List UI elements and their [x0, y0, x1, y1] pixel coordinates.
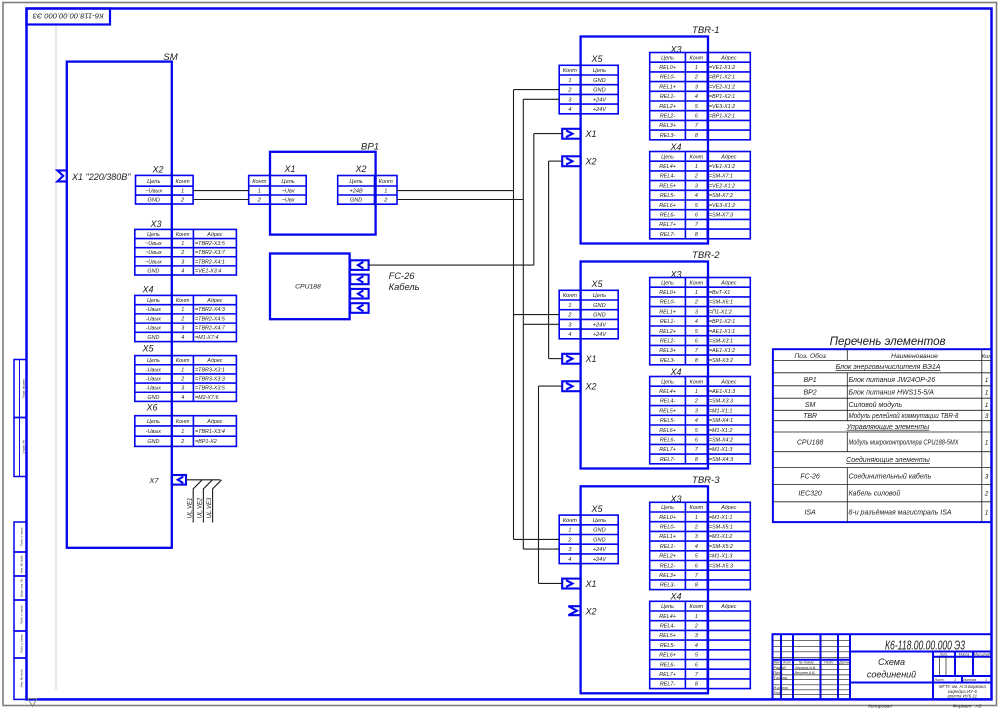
- svg-text:6: 6: [695, 662, 698, 668]
- svg-text:REL2-: REL2-: [660, 339, 675, 345]
- svg-text:8: 8: [695, 358, 698, 364]
- svg-text:4: 4: [181, 395, 184, 401]
- svg-text:X5: X5: [590, 279, 603, 289]
- svg-text:Конт: Конт: [175, 179, 189, 185]
- svg-text:Адрес: Адрес: [720, 55, 737, 61]
- tap +24V to TBR-3 X5:3: [523, 548, 559, 550]
- svg-text:4: 4: [695, 193, 698, 199]
- svg-text:6: 6: [695, 563, 698, 569]
- svg-text:Цепь: Цепь: [147, 419, 160, 425]
- svg-text:Цепь: Цепь: [147, 358, 160, 364]
- svg-text:3: 3: [695, 408, 698, 414]
- svg-text:1: 1: [985, 439, 989, 446]
- svg-text:ISA: ISA: [804, 509, 816, 516]
- svg-text:REL2-: REL2-: [660, 114, 675, 120]
- svg-text:~Uвых: ~Uвых: [145, 189, 162, 195]
- svg-text:IEC320: IEC320: [798, 491, 821, 498]
- svg-text:1: 1: [258, 189, 261, 195]
- svg-text:1: 1: [568, 78, 571, 84]
- TBR-3 connector X1 port: [562, 579, 580, 589]
- svg-text:1: 1: [181, 307, 184, 313]
- svg-text:Инв. № дубл.: Инв. № дубл.: [20, 555, 24, 574]
- wire riser to TBR-1 X1: [534, 133, 562, 135]
- svg-text:Подп. и дата: Подп. и дата: [20, 634, 24, 653]
- svg-text:=SM-X4:1: =SM-X4:1: [709, 418, 733, 424]
- svg-text:4: 4: [695, 94, 698, 100]
- svg-text:=M1-X1:2: =M1-X1:2: [709, 534, 733, 540]
- TBR-3 connector X4 table: [650, 601, 751, 688]
- svg-text:-Uвых: -Uвых: [146, 307, 161, 313]
- svg-text:=SM-X7:1: =SM-X7:1: [709, 174, 733, 180]
- wire SM X2:1 to BP1 X1 upper: [193, 190, 249, 192]
- svg-text:~Uвх: ~Uвх: [282, 198, 295, 204]
- svg-text:6: 6: [695, 438, 698, 444]
- svg-text:-Uвых: -Uвых: [146, 429, 161, 435]
- svg-text:3: 3: [181, 386, 184, 392]
- svg-text:Вешнев А.В.: Вешнев А.В.: [795, 671, 816, 675]
- svg-text:3: 3: [985, 473, 989, 480]
- svg-text:+24V: +24V: [593, 107, 607, 113]
- svg-text:CPU188: CPU188: [295, 284, 321, 291]
- svg-text:UL.VE1: UL.VE1: [188, 498, 194, 519]
- svg-text:1: 1: [985, 509, 989, 516]
- TBR-2 connector X3 table: [650, 278, 751, 365]
- svg-text:2: 2: [694, 624, 698, 630]
- svg-text:+24V: +24V: [593, 332, 607, 338]
- svg-text:Справ. №: Справ. №: [22, 439, 26, 453]
- svg-text:+24V: +24V: [593, 557, 607, 563]
- svg-text:А3: А3: [975, 703, 982, 709]
- svg-text:=TBR2-X3:5: =TBR2-X3:5: [195, 241, 226, 247]
- module TBR-3 body: [581, 486, 708, 693]
- BP1 connector X1 table: [249, 176, 307, 205]
- svg-text:Кабель: Кабель: [389, 282, 420, 292]
- top-left stamp box K6-118.00.00.000 E3: [27, 9, 111, 25]
- svg-text:~Uвых: ~Uвых: [145, 241, 162, 247]
- svg-text:REL4-: REL4-: [660, 174, 675, 180]
- svg-text:Цепь: Цепь: [661, 505, 674, 511]
- svg-text:X5: X5: [590, 504, 603, 514]
- svg-text:4: 4: [181, 268, 184, 274]
- wire SM X2:2 to BP1 X1 lower: [193, 199, 249, 201]
- svg-text:2: 2: [694, 525, 698, 531]
- svg-text:1: 1: [181, 241, 184, 247]
- svg-text:-Uвых: -Uвых: [146, 367, 161, 373]
- svg-text:=VE3-X1:2: =VE3-X1:2: [709, 203, 735, 209]
- svg-text:GND: GND: [350, 198, 362, 204]
- svg-text:Конт: Конт: [379, 179, 393, 185]
- svg-text:2: 2: [694, 300, 698, 306]
- wire BP1 X2:1 +24V feed: [397, 190, 514, 192]
- svg-text:1: 1: [695, 290, 698, 296]
- svg-text:Цепь: Цепь: [661, 604, 674, 610]
- svg-text:=TBR2-X3:7: =TBR2-X3:7: [195, 250, 226, 256]
- TBR-1 connector X1 port: [562, 129, 580, 139]
- left margin box Sprav. No: [14, 418, 27, 477]
- svg-text:=M1-X1:1: =M1-X1:1: [709, 408, 733, 414]
- svg-text:Изм: Изм: [774, 661, 781, 665]
- svg-text:Блок питания HWS15-5/A: Блок питания HWS15-5/A: [849, 390, 935, 397]
- svg-text:Поз. Обоз: Поз. Обоз: [794, 352, 826, 360]
- svg-text:4: 4: [695, 544, 698, 550]
- svg-text:6: 6: [695, 213, 698, 219]
- branch UL.VE3: [213, 480, 222, 523]
- svg-text:4: 4: [695, 643, 698, 649]
- svg-text:2: 2: [694, 399, 698, 405]
- svg-text:группа ИУ6-11: группа ИУ6-11: [948, 694, 978, 699]
- left margin box Inv. No dubl.: [14, 552, 27, 576]
- svg-text:2: 2: [180, 316, 184, 322]
- module SM body: [67, 62, 172, 548]
- svg-text:REL6-: REL6-: [660, 438, 675, 444]
- svg-text:REL6+: REL6+: [659, 653, 676, 659]
- svg-text:=M1-X1:1: =M1-X1:1: [709, 515, 733, 521]
- svg-text:Конт: Конт: [563, 518, 577, 524]
- svg-text:Конт: Конт: [176, 298, 190, 304]
- svg-text:REL6-: REL6-: [660, 662, 675, 668]
- TBR-1 connector X5 table: [559, 65, 618, 114]
- svg-text:Копировал: Копировал: [868, 703, 892, 709]
- svg-text:3: 3: [695, 309, 698, 315]
- svg-text:=AE1-X1:2: =AE1-X1:2: [709, 348, 735, 354]
- svg-text:Адрес: Адрес: [720, 154, 737, 160]
- svg-text:-Uвых: -Uвых: [146, 316, 161, 322]
- svg-text:Инв. № подл.: Инв. № подл.: [20, 669, 24, 688]
- tap +24V to TBR-2 X5:3: [523, 323, 559, 325]
- CPU188 port 2: [350, 275, 368, 285]
- wire to TBR-2 X1: [549, 358, 562, 360]
- svg-text:REL5-: REL5-: [660, 193, 675, 199]
- svg-text:REL2+: REL2+: [659, 554, 676, 560]
- svg-text:REL3+: REL3+: [659, 123, 676, 129]
- svg-text:К6-118.00.00.000 Э3: К6-118.00.00.000 Э3: [32, 12, 104, 21]
- svg-text:=SM-X3:3: =SM-X3:3: [709, 399, 733, 405]
- svg-text:Подп. и дата: Подп. и дата: [20, 527, 24, 546]
- left margin box Perv. primen.: [14, 360, 27, 418]
- svg-text:Цепь: Цепь: [661, 280, 674, 286]
- svg-text:REL3+: REL3+: [659, 348, 676, 354]
- svg-text:UL.VE2: UL.VE2: [198, 497, 204, 518]
- wire BP1 X2:2 GND feed: [397, 199, 523, 201]
- svg-text:X1: X1: [584, 129, 596, 139]
- svg-text:=SM-X7:3: =SM-X7:3: [709, 213, 733, 219]
- svg-text:=BP1-X2:1: =BP1-X2:1: [709, 114, 735, 120]
- svg-text:Цепь: Цепь: [593, 518, 606, 524]
- svg-text:+24В: +24В: [349, 189, 362, 195]
- module TBR-2 body: [581, 262, 708, 469]
- tap GND to TBR-2 X5:2: [514, 314, 560, 316]
- svg-text:X1 "220/380В": X1 "220/380В": [71, 172, 131, 182]
- svg-text:X1: X1: [584, 579, 596, 589]
- svg-text:REL7+: REL7+: [659, 222, 676, 228]
- svg-text:1: 1: [181, 367, 184, 373]
- riser TBR-1 X2 to TBR-2 X1: [548, 161, 550, 359]
- svg-text:=M1-X1:3: =M1-X1:3: [709, 554, 733, 560]
- svg-text:X4: X4: [669, 367, 681, 377]
- svg-text:Модуль релейной коммутации TBR: Модуль релейной коммутации TBR-8: [849, 412, 959, 420]
- svg-text:1: 1: [695, 614, 698, 620]
- svg-text:=M1-X1:3: =M1-X1:3: [709, 447, 733, 453]
- svg-text:8: 8: [695, 232, 698, 238]
- svg-text:2: 2: [180, 376, 184, 382]
- branch UL.VE2: [203, 480, 212, 523]
- svg-text:REL1+: REL1+: [659, 309, 676, 315]
- TBR-1 connector X3 table: [650, 53, 751, 140]
- SM connector X5 table: [135, 356, 237, 402]
- svg-text:Модуль микроконтроллера CPU188: Модуль микроконтроллера CPU188-5MX: [849, 438, 959, 446]
- svg-text:+24V: +24V: [593, 547, 607, 553]
- svg-text:REL1-: REL1-: [660, 319, 675, 325]
- vertical bus +24V: [522, 99, 524, 549]
- svg-text:Масса: Масса: [959, 653, 970, 657]
- svg-text:-Uвых: -Uвых: [146, 386, 161, 392]
- svg-text:Взам. инв. №: Взам. инв. №: [20, 578, 24, 597]
- svg-text:№ докум.: № докум.: [799, 661, 815, 665]
- svg-text:X1: X1: [283, 164, 295, 174]
- svg-text:FC-26: FC-26: [800, 473, 820, 480]
- power supply BP1 body: [270, 152, 376, 235]
- svg-text:REL3-: REL3-: [660, 133, 675, 139]
- svg-text:REL1+: REL1+: [659, 84, 676, 90]
- svg-text:Адрес: Адрес: [206, 419, 223, 425]
- svg-text:Н.контр.: Н.контр.: [774, 686, 789, 690]
- svg-text:Адрес: Адрес: [720, 379, 737, 385]
- svg-text:REL0+: REL0+: [659, 515, 676, 521]
- svg-text:4: 4: [695, 418, 698, 424]
- svg-text:Подп.: Подп.: [824, 661, 834, 665]
- svg-text:2: 2: [694, 174, 698, 180]
- svg-text:-Uвых: -Uвых: [146, 326, 161, 332]
- svg-text:REL5+: REL5+: [659, 408, 676, 414]
- svg-text:2: 2: [180, 439, 184, 445]
- svg-text:Конт: Конт: [690, 280, 704, 286]
- controller CPU188 body: [270, 254, 350, 320]
- connector X1 220/380V symbol: [57, 170, 66, 181]
- svg-text:GND: GND: [593, 313, 605, 319]
- svg-text:FC-26: FC-26: [389, 271, 416, 281]
- svg-text:=BP1-X2: =BP1-X2: [195, 439, 217, 445]
- svg-text:X2: X2: [584, 157, 596, 167]
- svg-text:REL0-: REL0-: [660, 300, 675, 306]
- svg-text:Конт: Конт: [690, 505, 704, 511]
- svg-text:Лит.: Лит.: [939, 653, 948, 657]
- svg-text:=BP1-X2:1: =BP1-X2:1: [709, 75, 735, 81]
- svg-text:Формат: Формат: [952, 703, 971, 709]
- wire TBR-1 X2 stub: [549, 160, 562, 162]
- svg-text:1: 1: [695, 389, 698, 395]
- svg-text:1: 1: [954, 678, 956, 682]
- module TBR-1 body: [581, 37, 708, 244]
- svg-text:=TBR1-X3:4: =TBR1-X3:4: [195, 429, 225, 435]
- svg-text:X1: X1: [584, 354, 596, 364]
- svg-text:TBR-1: TBR-1: [692, 25, 720, 36]
- svg-text:=M1-X1:2: =M1-X1:2: [709, 428, 733, 434]
- svg-text:REL5+: REL5+: [659, 633, 676, 639]
- svg-text:CPU188: CPU188: [797, 439, 824, 446]
- svg-text:Утв.: Утв.: [774, 691, 782, 695]
- svg-text:1: 1: [695, 65, 698, 71]
- TBR-2 connector X5 table: [559, 290, 618, 339]
- svg-text:=M2-X7:6: =M2-X7:6: [195, 395, 219, 401]
- svg-text:=AE1-X1:1: =AE1-X1:1: [709, 329, 735, 335]
- title block frame: [773, 634, 992, 699]
- svg-text:TBR-2: TBR-2: [692, 250, 720, 261]
- branch UL.VE1: [193, 480, 202, 523]
- svg-text:8: 8: [695, 457, 698, 463]
- svg-text:Листов: Листов: [962, 678, 976, 682]
- svg-text:REL1-: REL1-: [660, 544, 675, 550]
- svg-text:1: 1: [181, 189, 184, 195]
- svg-text:Адрес: Адрес: [206, 232, 223, 238]
- svg-text:Конт: Конт: [176, 419, 190, 425]
- svg-text:Перв. примен.: Перв. примен.: [22, 378, 26, 398]
- svg-text:=TBR2-X4:3: =TBR2-X4:3: [195, 307, 225, 313]
- svg-text:REL4+: REL4+: [659, 614, 676, 620]
- svg-text:1: 1: [985, 377, 989, 384]
- svg-text:-Uвых: -Uвых: [146, 376, 161, 382]
- svg-text:=VE1-X3:4: =VE1-X3:4: [195, 268, 221, 274]
- svg-text:REL4-: REL4-: [660, 399, 675, 405]
- svg-text:=AE1-X1:3: =AE1-X1:3: [709, 389, 735, 395]
- svg-text:Соединяющие элементы: Соединяющие элементы: [846, 456, 930, 464]
- svg-text:8-и разъёмная магистраль ISA: 8-и разъёмная магистраль ISA: [849, 509, 952, 516]
- fold mark triangle: [28, 699, 37, 707]
- svg-text:Конт: Конт: [690, 154, 704, 160]
- svg-text:Конт: Конт: [176, 232, 190, 238]
- svg-text:=П1-X1:2: =П1-X1:2: [709, 309, 732, 315]
- wire SM X7 output: [186, 479, 220, 481]
- svg-text:Соединительный кабель: Соединительный кабель: [849, 472, 932, 480]
- svg-text:1: 1: [985, 390, 989, 397]
- svg-text:Цепь: Цепь: [147, 179, 160, 185]
- riser CPU188 to TBR-1 X1: [533, 134, 535, 266]
- svg-text:REL5-: REL5-: [660, 418, 675, 424]
- svg-text:REL5+: REL5+: [659, 183, 676, 189]
- SM connector X3 table: [135, 229, 237, 275]
- left margin box Podp. i data 1: [14, 522, 27, 552]
- svg-text:GND: GND: [593, 78, 605, 84]
- svg-text:~Uвых: ~Uвых: [145, 250, 162, 256]
- svg-text:Блок энерговычислителя ВЭ1А: Блок энерговычислителя ВЭ1А: [836, 364, 941, 371]
- svg-text:Чекалов А.В.: Чекалов А.В.: [795, 666, 817, 670]
- svg-text:Цепь: Цепь: [593, 68, 606, 74]
- svg-text:GND: GND: [147, 335, 159, 341]
- svg-text:=VE2-X1:2: =VE2-X1:2: [709, 183, 735, 189]
- wire to TBR-3 X1: [539, 582, 562, 584]
- svg-text:8: 8: [695, 133, 698, 139]
- svg-text:Цепь: Цепь: [593, 293, 606, 299]
- svg-text:REL7-: REL7-: [660, 682, 675, 688]
- tap GND to TBR-1 X5:2: [514, 89, 560, 91]
- svg-text:4: 4: [695, 319, 698, 325]
- svg-text:1: 1: [695, 515, 698, 521]
- svg-text:SM: SM: [805, 402, 816, 409]
- svg-text:Конт: Конт: [690, 604, 704, 610]
- TBR-2 connector X1 port: [562, 354, 580, 364]
- svg-text:GND: GND: [147, 395, 159, 401]
- svg-text:Разраб.: Разраб.: [774, 666, 787, 670]
- svg-text:REL7+: REL7+: [659, 672, 676, 678]
- svg-text:REL2+: REL2+: [659, 104, 676, 110]
- svg-text:=SM-X3:2: =SM-X3:2: [709, 358, 733, 364]
- svg-text:Масштаб: Масштаб: [974, 653, 992, 657]
- svg-text:X2: X2: [151, 165, 163, 175]
- svg-text:REL2-: REL2-: [660, 563, 675, 569]
- svg-text:2: 2: [180, 250, 184, 256]
- svg-text:REL3+: REL3+: [659, 573, 676, 579]
- svg-text:Конт: Конт: [176, 358, 190, 364]
- svg-text:=SM-X5:1: =SM-X5:1: [709, 525, 733, 531]
- svg-text:REL1+: REL1+: [659, 534, 676, 540]
- svg-text:UL.VE3: UL.VE3: [207, 497, 213, 518]
- svg-text:=BP1-X2:1: =BP1-X2:1: [709, 94, 735, 100]
- svg-text:Конт: Конт: [563, 293, 577, 299]
- svg-text:=SM-X3:1: =SM-X3:1: [709, 339, 733, 345]
- svg-text:=SM-X7:2: =SM-X7:2: [709, 193, 733, 199]
- svg-text:Адрес: Адрес: [206, 298, 223, 304]
- svg-text:X5: X5: [590, 54, 603, 64]
- svg-text:TBR-3: TBR-3: [692, 475, 720, 486]
- svg-text:К6-118.00.00.000 Э3: К6-118.00.00.000 Э3: [885, 638, 965, 653]
- svg-text:GND: GND: [593, 303, 605, 309]
- svg-text:=BP1-X2:1: =BP1-X2:1: [709, 319, 735, 325]
- svg-text:Конт: Конт: [252, 179, 266, 185]
- svg-text:Управляющие элементы: Управляющие элементы: [846, 424, 931, 431]
- svg-text:BP1: BP1: [803, 377, 816, 384]
- svg-text:GND: GND: [593, 537, 605, 543]
- svg-text:REL6+: REL6+: [659, 203, 676, 209]
- svg-text:BP2: BP2: [803, 390, 816, 397]
- svg-text:Схема: Схема: [878, 657, 905, 667]
- svg-text:Лист: Лист: [782, 661, 792, 665]
- TBR-3 connector X3 table: [650, 502, 751, 589]
- svg-text:Адрес: Адрес: [720, 604, 737, 610]
- svg-text:2: 2: [694, 75, 698, 81]
- SM connector X4 table: [135, 295, 237, 341]
- svg-text:X5: X5: [141, 344, 154, 354]
- CPU188 port 3: [350, 289, 368, 299]
- svg-text:6: 6: [695, 339, 698, 345]
- svg-text:REL0-: REL0-: [660, 525, 675, 531]
- svg-text:GND: GND: [593, 528, 605, 534]
- svg-text:Блок питания JW24OP-26: Блок питания JW24OP-26: [849, 377, 936, 384]
- svg-text:3: 3: [985, 413, 989, 420]
- svg-text:Конт: Конт: [690, 55, 704, 61]
- svg-text:3: 3: [695, 84, 698, 90]
- svg-text:=TBR3-X3:5: =TBR3-X3:5: [195, 386, 226, 392]
- element list table: [773, 349, 992, 522]
- svg-text:1: 1: [695, 164, 698, 170]
- svg-text:=VE2-X1:2: =VE2-X1:2: [709, 84, 735, 90]
- svg-text:X7: X7: [148, 476, 159, 485]
- svg-text:REL4-: REL4-: [660, 624, 675, 630]
- svg-text:REL7-: REL7-: [660, 232, 675, 238]
- svg-text:1: 1: [568, 303, 571, 309]
- TBR-3 connector X2 external symbol: [568, 606, 580, 615]
- svg-text:Адрес: Адрес: [720, 505, 737, 511]
- BP1 connector X2 table: [338, 176, 397, 205]
- svg-text:X6: X6: [145, 402, 157, 412]
- svg-text:3: 3: [695, 633, 698, 639]
- svg-text:соединений: соединений: [867, 670, 916, 680]
- svg-text:~Uвых: ~Uвых: [145, 259, 162, 265]
- svg-text:X3: X3: [149, 219, 161, 229]
- svg-text:3: 3: [181, 326, 184, 332]
- SM connector X7 port: [172, 475, 186, 485]
- svg-text:1: 1: [384, 189, 387, 195]
- svg-text:REL0+: REL0+: [659, 65, 676, 71]
- CPU188 port 4: [350, 303, 368, 313]
